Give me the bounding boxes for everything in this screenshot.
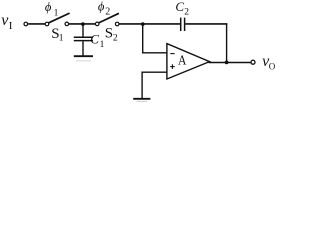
capacitor C1 top plate — [74, 36, 93, 38]
svg-text:ϕ: ϕ — [98, 0, 105, 13]
wire C1 to ground — [82, 41, 84, 55]
switch S2 right contact — [115, 22, 119, 26]
capacitor C2 right plate — [184, 18, 186, 31]
svg-text:S: S — [105, 26, 113, 42]
svg-text:I: I — [9, 20, 13, 32]
input terminal circle — [24, 22, 28, 26]
switch S1 right contact — [65, 22, 69, 26]
label phi1 — [45, 0, 59, 19]
svg-text:A: A — [178, 54, 187, 69]
ground below op-amp — [133, 99, 150, 102]
wire S1 to S2 — [69, 23, 95, 25]
junction node at output — [225, 61, 229, 65]
svg-text:2: 2 — [184, 7, 189, 17]
op-amp plus sign — [170, 64, 175, 69]
node vO output label — [262, 53, 276, 71]
svg-text:1: 1 — [59, 34, 64, 44]
svg-text:ϕ: ϕ — [45, 0, 52, 14]
wire to non-inverting input — [142, 71, 168, 73]
ground below C1 — [74, 56, 93, 61]
switch S1 left contact — [45, 22, 49, 26]
svg-text:C: C — [175, 0, 184, 14]
op-amp minus sign — [170, 53, 174, 55]
wire tap down to inverting input — [142, 24, 144, 53]
label C2 — [175, 0, 189, 17]
label S1 — [51, 26, 64, 44]
wire C2 to corner — [185, 23, 227, 25]
wire input to S1 — [28, 23, 45, 25]
capacitor C1 bottom plate — [74, 40, 93, 42]
label phi2 — [98, 0, 110, 18]
svg-text:1: 1 — [54, 9, 59, 19]
switch S2 arm — [98, 13, 119, 23]
junction node at C1 top — [81, 22, 85, 26]
svg-text:O: O — [269, 61, 276, 71]
capacitor C2 left plate — [180, 18, 182, 31]
svg-text:2: 2 — [113, 34, 118, 44]
svg-text:C: C — [90, 32, 99, 47]
wire non-inverting input down to ground — [141, 72, 143, 98]
node vI input label — [1, 12, 13, 32]
junction node feedback tap — [141, 22, 145, 26]
label S2 — [105, 26, 118, 44]
label C1 — [90, 32, 104, 51]
wire op-amp output — [209, 62, 251, 64]
switch S1 arm — [48, 13, 70, 23]
output terminal circle — [251, 60, 255, 64]
wire feedback corner down to output — [226, 23, 228, 62]
wire to inverting input — [142, 52, 168, 54]
wire junction down to C1 — [82, 24, 84, 37]
switch S2 left contact — [95, 22, 99, 26]
wire S2 to C2 — [119, 23, 180, 25]
svg-text:2: 2 — [105, 7, 110, 18]
op-amp U1 triangle — [167, 44, 210, 79]
